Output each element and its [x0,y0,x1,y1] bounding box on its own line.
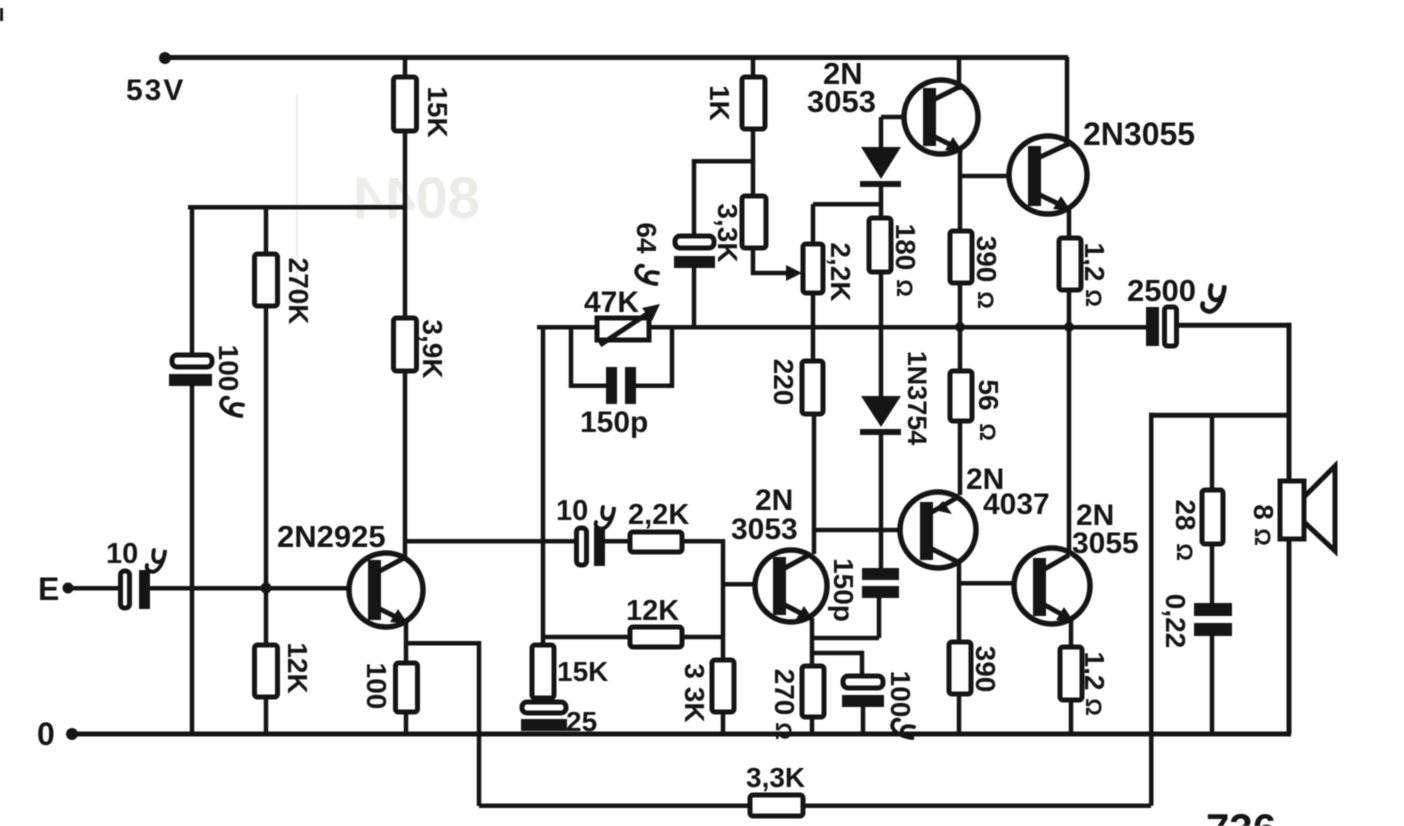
wire 12K R14 right [682,635,723,640]
wire speaker branch top [1287,415,1292,481]
svg-text:3055: 3055 [1072,527,1139,560]
wire C2 to base node [150,586,269,591]
diode D1 [860,147,901,187]
svg-text:100: 100 [885,671,916,718]
svg-text:64: 64 [631,222,662,254]
svg-text:25: 25 [566,706,597,737]
svg-text:10: 10 [106,538,138,570]
resistor 1,2 R17 [1059,238,1081,290]
svg-text:3 3K: 3 3K [679,663,710,722]
svg-text:10: 10 [556,495,588,527]
wire feedback bottom line [479,804,1151,809]
wire R16 to bus [958,283,963,327]
wire speaker network top [1149,413,1291,418]
wire Q2 base down to D1 [879,117,884,149]
resistor 28 R22 [1202,490,1223,544]
svg-text:Ω: Ω [1250,528,1275,546]
resistor 3,3K R8 [742,196,766,248]
transistor Q4 2N3053 bottom [755,550,827,622]
wire bus to R10 [811,327,816,361]
wire R15 to bus [879,272,884,327]
junction dot R16 bus [955,322,965,332]
svg-text:28: 28 [1170,499,1201,530]
resistor 12K R3 [255,645,278,697]
junction dot R17 bus [1064,322,1074,332]
wire R8 down to wiper arm [751,248,756,275]
wire 150p loop right [670,327,675,388]
wire junction to R8 [751,161,756,196]
svg-text:390: 390 [970,646,1001,693]
svg-text:2N3055: 2N3055 [1083,116,1195,152]
svg-text:1K: 1K [704,85,735,121]
wire R18 to Q5 emitter [958,421,963,495]
wire C5 to Q4 emitter [877,598,882,638]
svg-text:Ω: Ω [1081,289,1106,307]
wire Q2 collector to rail [957,57,962,90]
wire Q3 emitter down [1067,208,1072,238]
svg-text:180: 180 [890,224,921,271]
wire Q2 base stub [881,115,926,120]
wire base node down to R3 [264,588,269,645]
svg-text:Ω: Ω [1172,543,1197,561]
wire top supply rail [162,55,1068,60]
svg-text:3,3K: 3,3K [746,762,805,793]
potentiometer 47K [597,304,660,345]
wire speaker to ground rail [1287,539,1292,734]
resistor 390 R19 [949,642,971,694]
wire Q1 emitter to feedback [406,641,479,646]
svg-text:220: 220 [768,359,799,406]
53V supply terminal dot [159,52,171,64]
resistor 15K R1 [394,77,417,131]
wire output corner down [1287,323,1292,416]
wire R7 to junction [751,129,756,163]
potentiometer 2,2K R9 [803,244,823,293]
svg-text:12K: 12K [282,642,313,693]
wire Q4 emitter down [810,618,815,666]
node base of Q1 junction dot [261,583,272,594]
transistor Q2 2N3053 top [904,80,978,154]
wire left column 47K node down [541,325,546,645]
svg-text:56: 56 [973,379,1004,410]
svg-text:15K: 15K [557,656,608,687]
resistor 2,2K R12 [630,532,682,552]
wire R13 to ground rail [721,712,726,734]
wire Q4 base column vertical [721,539,726,660]
wire R22 to C9 [1210,544,1215,603]
svg-text:270: 270 [769,669,800,716]
wire Q3 collector to rail [1065,57,1070,147]
wire R1 to bias node [403,131,408,207]
wire R12 to Q4 base column [682,539,725,544]
svg-text:390: 390 [971,236,1002,283]
wire bus to Q6 collector [1067,327,1072,555]
wire junction to C4 branch [692,159,753,164]
svg-text:100: 100 [213,345,244,392]
wire R4 to Q1 collector [403,371,408,559]
wire Q2 emitter to Q3 base [960,174,1010,179]
wire mid bus horizontal [537,325,1148,330]
svg-text:100: 100 [361,663,392,710]
wire pot bottom to bus [811,293,816,327]
wire rail to R7 [751,57,756,77]
wiper arrow into 2,2K pot [751,271,789,276]
wire bias node down to C1 [190,205,195,357]
wire R19 to ground rail [957,694,962,734]
svg-text:8044: 8044 [351,166,480,231]
capacitor 150p C10 [606,367,617,404]
wire 12K R14 left [543,635,630,640]
wire bias node to R4 [403,207,408,318]
capacitor 100u C6 [843,676,883,688]
resistor 180 R15 [869,218,891,272]
wire Q1 emitter down [404,621,409,663]
svg-text:Ω: Ω [1081,698,1106,716]
wire R17 to bus [1067,290,1072,327]
wire C9 to ground rail [1210,636,1215,734]
resistor 1,2 R20 [1060,647,1082,700]
input terminal dot [63,583,74,594]
resistor 3,9K R4 [394,318,417,371]
wire feedback tap vertical [1149,413,1154,806]
wire Q5 collector down [957,562,962,642]
wire rail to R1 [403,57,408,77]
svg-text:270K: 270K [283,258,314,325]
wire C1 to ground rail [190,386,195,734]
wire D1 to junction [879,187,884,218]
svg-text:47K: 47K [584,286,639,319]
wire C6 to ground rail [861,707,866,734]
wire C7 to R12 [605,539,630,544]
wire bus to D2 [879,327,884,396]
wire Q5 collector to Q6 base [959,581,1017,586]
wire node down to C5 [879,530,884,568]
svg-text:Ω: Ω [892,279,917,297]
wire input E to C2 [68,586,120,591]
svg-text:53V: 53V [126,74,185,107]
wire R5 to ground rail [404,712,409,734]
capacitor 10u C7 [577,528,587,565]
resistor 1K R7 [742,77,765,129]
svg-text:3,9K: 3,9K [417,319,448,378]
wire Q1 collector to C7 [405,539,577,544]
wire R3 to ground rail [264,697,269,734]
resistor 3,3K R13 [712,660,734,712]
resistor 100 R5 [396,663,418,712]
resistor 270K R2 [255,254,278,306]
transistor Q1 2N2925 [349,553,423,627]
capacitor 2500u C8 [1146,307,1159,346]
capacitor 10u input C2 [121,571,130,608]
resistor 56 R18 [950,371,972,421]
ground terminal dot [66,728,78,740]
resistor 270 R11 [802,666,824,717]
svg-text:E: E [38,571,59,607]
capacitor 100u C1 [172,355,212,367]
resistor 220 R10 [802,361,823,414]
resistor 15K R6 [532,645,554,698]
svg-text:1,2: 1,2 [1079,652,1110,691]
wire bias node down to R2 [264,205,269,255]
wire 150p loop left [569,327,574,388]
wire feedback vertical left [477,641,482,806]
svg-text:1N3754: 1N3754 [902,351,932,446]
svg-text:0,22: 0,22 [1160,594,1191,649]
transistor Q3 2N3055 top [1009,136,1087,214]
wire Q2 emitter down [958,149,963,231]
svg-text:3,3K: 3,3K [712,203,743,262]
transistor Q6 2N3055 bottom [1014,548,1090,624]
svg-text:736: 736 [1206,805,1276,826]
svg-text:150p: 150p [580,406,648,439]
svg-text:Ω: Ω [975,423,1000,441]
svg-text:2,2K: 2,2K [825,242,856,301]
capacitor 0,22 C9 [1194,603,1232,616]
svg-text:Ω: Ω [771,722,796,740]
svg-text:12K: 12K [626,595,679,627]
wire bus to R18 [958,327,963,371]
resistor 390 R16 [950,231,972,283]
wire R10 down to Q4 collector node [812,414,817,554]
wire R2 to base node [264,306,269,588]
wire C4 to bus [692,268,697,327]
svg-text:3053: 3053 [731,513,798,546]
diode D2 1N3754 [860,396,901,435]
svg-text:4037: 4037 [983,488,1050,521]
wire Q4 base stub [723,582,775,587]
svg-text:3053: 3053 [807,84,876,119]
svg-text:2500: 2500 [1127,273,1196,308]
svg-text:2,2K: 2,2K [628,499,689,531]
capacitor 64u C4 [675,236,714,248]
edge mark top left [0,8,3,21]
wire Q4 collector node to Q5 base [814,528,902,533]
svg-text:0: 0 [37,716,55,752]
wire D2 to Q4 collector node [879,435,884,530]
resistor 3,3K R21 feedback [750,795,803,816]
wire pot top to bias chain [811,204,816,244]
capacitor 25 C3 [522,702,566,713]
svg-text:2N2925: 2N2925 [277,519,386,554]
svg-text:8: 8 [1248,504,1279,520]
wire Q6 emitter down [1069,619,1074,647]
resistor 12K R14 [630,627,682,647]
wire base node to Q1 base [266,586,370,591]
wire C8 to output corner [1176,323,1291,328]
wire R11 to ground rail [810,717,815,734]
speaker LS [1280,466,1335,551]
faint streak [296,95,298,305]
wire bias node horizontal [188,205,407,210]
svg-text:150p: 150p [828,558,859,622]
svg-text:15K: 15K [422,86,453,137]
wire bottom ground rail [70,732,1291,737]
svg-text:1,2: 1,2 [1079,243,1110,282]
wire R20 to ground rail [1069,700,1074,734]
wire Q4 emitter to C6 [812,651,862,656]
wire 28ohm branch top [1210,415,1215,490]
svg-text:Ω: Ω [973,291,998,309]
transistor Q5 2N4037 [900,492,976,568]
capacitor 150p C5 [862,568,899,580]
